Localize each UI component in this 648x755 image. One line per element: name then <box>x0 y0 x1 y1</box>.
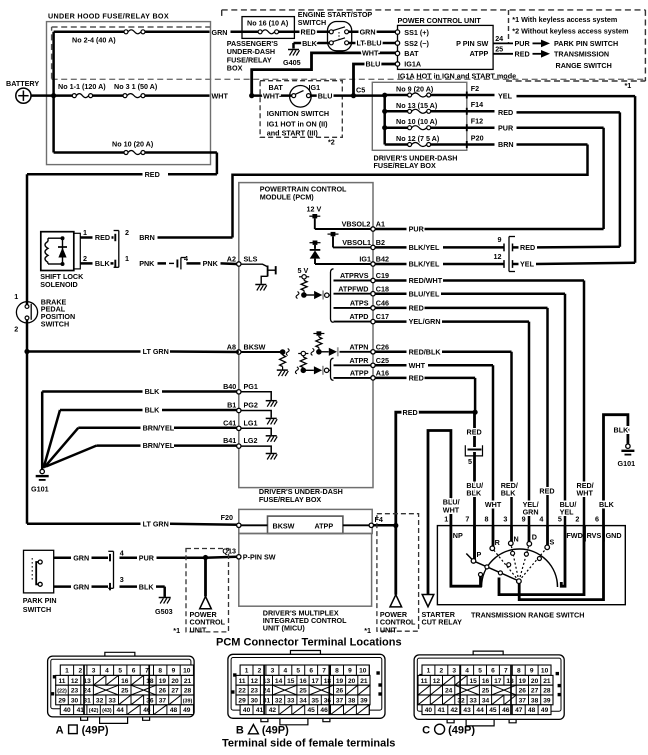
svg-text:21: 21 <box>543 678 551 685</box>
svg-text:P20: P20 <box>471 133 484 142</box>
svg-text:LG2: LG2 <box>244 436 258 445</box>
svg-text:20: 20 <box>531 678 539 685</box>
connector label <box>56 725 109 737</box>
svg-text:FWD: FWD <box>566 531 582 540</box>
wire: GRN into fuse 16 <box>231 31 259 34</box>
svg-text:SS2 (−): SS2 (−) <box>404 39 429 48</box>
svg-text:No 10 (20 A): No 10 (20 A) <box>112 140 154 149</box>
svg-text:PUR: PUR <box>409 225 425 234</box>
svg-text:2: 2 <box>78 668 82 675</box>
wire: RED feed to brake pedal switch <box>27 174 217 306</box>
svg-text:PUR: PUR <box>139 553 155 562</box>
svg-text:19: 19 <box>519 678 527 685</box>
svg-text:SLS: SLS <box>244 254 258 263</box>
svg-text:BLK: BLK <box>145 387 161 396</box>
svg-text:19: 19 <box>336 678 344 685</box>
svg-text:GND: GND <box>606 531 622 540</box>
wire: PUR from A1 <box>375 228 406 231</box>
svg-text:1: 1 <box>65 668 69 675</box>
svg-text:22: 22 <box>238 688 246 695</box>
svg-text:WHT: WHT <box>443 505 460 514</box>
svg-text:WHT: WHT <box>577 489 594 498</box>
svg-text:*1: *1 <box>173 626 180 635</box>
svg-text:ATPS: ATPS <box>350 299 369 308</box>
transmission range switch box <box>437 526 625 605</box>
node: RED junction <box>473 410 478 415</box>
svg-text:No 2-4 (40 A): No 2-4 (40 A) <box>72 36 116 45</box>
svg-text:IG1 HOT in ON (II): IG1 HOT in ON (II) <box>267 120 328 129</box>
pin C19 ATPRVS <box>334 271 389 283</box>
wire: BRN/YEL from B41 to G101 <box>46 446 237 467</box>
svg-text:F2: F2 <box>471 84 479 93</box>
svg-text:39: 39 <box>360 697 368 704</box>
ground G101 (right) <box>618 444 636 468</box>
svg-text:G101: G101 <box>618 459 636 468</box>
svg-text:BOX: BOX <box>227 64 243 73</box>
svg-text:BKSW: BKSW <box>244 342 266 351</box>
svg-text:SWITCH: SWITCH <box>41 320 69 329</box>
svg-text:G101: G101 <box>31 485 49 494</box>
svg-text:F14: F14 <box>471 100 483 109</box>
svg-text:18: 18 <box>324 678 332 685</box>
svg-text:TRANSMISSION RANGE SWITCH: TRANSMISSION RANGE SWITCH <box>471 610 584 619</box>
node: P-PIN SW junction <box>203 555 208 560</box>
wire: BLU/YEL from C18 <box>375 294 565 526</box>
wire: YEL/GRN from C17 <box>375 322 529 526</box>
svg-text:R: R <box>495 538 501 547</box>
wire: YEL from pin 12 up to F2 YEL <box>513 263 636 264</box>
svg-text:VBSOL2: VBSOL2 <box>342 220 371 229</box>
svg-text:GRN: GRN <box>212 28 228 37</box>
svg-text:RED: RED <box>515 49 530 58</box>
svg-text:Terminal side of female termin: Terminal side of female terminals <box>222 738 395 750</box>
svg-text:26: 26 <box>336 688 344 695</box>
pin A8 BKSW <box>227 342 266 354</box>
wire: LT GRN to F20 <box>27 524 239 525</box>
svg-text:44: 44 <box>476 707 484 714</box>
wire: fuse row No 10 to RED <box>54 153 217 175</box>
svg-text:UNDER HOOD FUSE/RELAY BOX: UNDER HOOD FUSE/RELAY BOX <box>48 12 169 21</box>
svg-text:5: 5 <box>296 668 300 675</box>
svg-text:ATPP: ATPP <box>470 49 489 58</box>
svg-text:25: 25 <box>482 688 490 695</box>
svg-text:and START (III): and START (III) <box>267 129 319 138</box>
svg-text:6: 6 <box>132 668 136 675</box>
svg-text:BAT: BAT <box>269 83 284 92</box>
wire: BLU from C5 into fuse bus <box>354 94 385 97</box>
svg-text:RED/WHT: RED/WHT <box>409 276 443 285</box>
svg-text:No 9 (20 A): No 9 (20 A) <box>396 85 434 94</box>
svg-text:VBSOL1: VBSOL1 <box>342 238 371 247</box>
svg-text:BLK: BLK <box>599 500 615 509</box>
battery <box>6 79 46 103</box>
pin SS1 <box>395 28 429 37</box>
wire: BRN/YEL from C41 to G101 <box>45 428 237 467</box>
pin F4 <box>343 515 396 528</box>
wire: BLK/YEL from B42 to connector pin 12 <box>375 263 503 266</box>
wire: GRN switch to SS1 <box>349 31 396 34</box>
svg-text:16: 16 <box>482 678 490 685</box>
wire: BLU/WHT range switch pin 1 to starter cut relay <box>428 431 451 595</box>
pin B42 IG1 <box>359 255 389 267</box>
svg-text:PG1: PG1 <box>244 382 258 391</box>
pin C41 LG1 <box>223 418 277 442</box>
pin C26 ATPN <box>349 342 389 354</box>
wire: GRN park pin bottom <box>54 582 108 591</box>
svg-text:4: 4 <box>105 668 109 675</box>
svg-text:47: 47 <box>515 707 523 714</box>
svg-text:D: D <box>532 533 537 542</box>
svg-text:ATPD: ATPD <box>349 312 368 321</box>
svg-text:12: 12 <box>433 678 441 685</box>
pin B41 LG2 <box>223 436 277 459</box>
under-hood fuse/relay box <box>47 22 211 165</box>
svg-text:17: 17 <box>312 678 320 685</box>
pin numbers above range switch <box>444 515 599 524</box>
svg-text:5: 5 <box>558 515 562 524</box>
svg-text:(49P): (49P) <box>262 725 289 737</box>
svg-text:ATPFWD: ATPFWD <box>338 284 368 293</box>
svg-text:14: 14 <box>275 678 283 685</box>
svg-text:WHT: WHT <box>362 49 379 58</box>
intermediate rotary contacts <box>485 551 542 575</box>
svg-text:12: 12 <box>494 252 502 261</box>
svg-text:9: 9 <box>530 668 534 675</box>
BKSW/ATPP relay block <box>268 516 343 533</box>
connector shell <box>48 652 195 723</box>
wire: BLK to G503 <box>120 582 165 597</box>
svg-text:BLK: BLK <box>614 425 630 434</box>
svg-text:11: 11 <box>59 678 66 685</box>
ignition switch dashed box <box>260 81 342 138</box>
svg-text:Q13: Q13 <box>222 546 236 555</box>
connector keying dividers <box>264 665 329 715</box>
svg-text:5: 5 <box>118 668 122 675</box>
dashed keyless-option boundary (left part) <box>52 27 210 79</box>
svg-text:43: 43 <box>463 707 471 714</box>
wire: pin 6 GND path <box>519 526 603 600</box>
node: WHT ignition junction <box>249 93 254 98</box>
svg-text:FUSE/RELAY BOX: FUSE/RELAY BOX <box>259 495 322 504</box>
power control unit box <box>398 16 494 69</box>
svg-text:37: 37 <box>159 697 167 704</box>
svg-text:RED: RED <box>403 408 418 417</box>
svg-text:28: 28 <box>184 688 192 695</box>
connector label <box>422 724 475 736</box>
svg-text:1: 1 <box>83 228 87 237</box>
svg-text:C26: C26 <box>376 342 389 351</box>
svg-text:7: 7 <box>322 668 326 675</box>
wire: pin 3 to N contact <box>510 526 513 544</box>
svg-text:BLK: BLK <box>466 489 482 498</box>
svg-text:8: 8 <box>158 668 162 675</box>
svg-text:6: 6 <box>491 668 495 675</box>
svg-text:12 V: 12 V <box>307 205 322 214</box>
svg-text:9: 9 <box>498 235 502 244</box>
svg-text:LG1: LG1 <box>244 418 258 427</box>
label: passenger's under-dash fuse/relay box <box>227 39 278 73</box>
svg-text:PARK PIN SWITCH: PARK PIN SWITCH <box>554 39 618 48</box>
dashed divider before notes <box>508 10 510 43</box>
svg-text:C18: C18 <box>376 284 389 293</box>
engine start/stop switch body <box>328 22 352 51</box>
pin B40 PG1 <box>223 382 277 407</box>
svg-text:24: 24 <box>445 688 453 695</box>
svg-text:GRN: GRN <box>73 582 89 591</box>
svg-text:YEL/GRN: YEL/GRN <box>409 317 441 326</box>
svg-text:SWITCH: SWITCH <box>23 605 51 614</box>
svg-text:*1: *1 <box>625 81 632 90</box>
fuse No 16 box <box>242 17 294 39</box>
svg-text:ATPRVS: ATPRVS <box>340 271 369 280</box>
svg-text:49: 49 <box>541 707 549 714</box>
pin B1 PG2 <box>227 401 277 425</box>
svg-text:16: 16 <box>299 678 307 685</box>
svg-text:BLK: BLK <box>145 406 161 415</box>
svg-text:37: 37 <box>336 697 344 704</box>
pin B2 VBSOL1 <box>342 238 385 250</box>
wire: park pin to power control unit <box>204 558 207 597</box>
connector (solenoid 2P) <box>114 228 129 267</box>
svg-text:40: 40 <box>63 707 71 714</box>
svg-text:LT GRN: LT GRN <box>143 520 169 529</box>
svg-text:34: 34 <box>299 697 307 704</box>
svg-text:A2: A2 <box>227 254 236 263</box>
svg-text:9: 9 <box>348 668 352 675</box>
pin 25 ATPP <box>470 44 612 69</box>
svg-text:41: 41 <box>77 707 85 714</box>
svg-text:30: 30 <box>251 697 259 704</box>
range switch arc <box>482 549 558 587</box>
svg-text:10: 10 <box>183 668 191 675</box>
12 V feed for VBSOL1 <box>328 232 374 248</box>
svg-text:(49P): (49P) <box>448 725 475 737</box>
node: battery junction <box>51 93 56 98</box>
svg-text:PARK PIN: PARK PIN <box>23 596 57 605</box>
wire: RED branch to power control unit F4 <box>396 412 475 525</box>
svg-text:BAT: BAT <box>404 49 419 58</box>
svg-text:C5: C5 <box>356 85 365 94</box>
svg-text:NP: NP <box>453 531 463 540</box>
connector pin grid <box>240 665 369 675</box>
svg-text:RED: RED <box>95 233 110 242</box>
wire: RED from pin 9 up to F14 RED <box>513 246 620 249</box>
svg-text:(49P): (49P) <box>82 725 109 737</box>
svg-text:11: 11 <box>239 678 246 685</box>
svg-text:34: 34 <box>482 697 490 704</box>
svg-text:8: 8 <box>335 668 339 675</box>
svg-text:No 12 (7 5 A): No 12 (7 5 A) <box>396 134 440 143</box>
svg-text:RED: RED <box>409 374 424 383</box>
svg-text:36: 36 <box>324 697 332 704</box>
svg-text:(22): (22) <box>57 689 67 695</box>
wire: pin 7 to P contact <box>473 526 476 561</box>
svg-text:42: 42 <box>451 707 459 714</box>
power control unit dashed box (left) <box>186 549 229 635</box>
svg-text:G503: G503 <box>155 607 173 616</box>
svg-text:A: A <box>56 725 64 737</box>
powertrain control module box <box>239 183 373 488</box>
svg-text:20: 20 <box>171 678 179 685</box>
pin IG1A <box>395 60 421 69</box>
wire: LT GRN to BKSW <box>27 318 239 524</box>
svg-text:RANGE SWITCH: RANGE SWITCH <box>556 61 612 70</box>
svg-text:23: 23 <box>251 688 259 695</box>
wire: RED from C46 <box>375 308 547 526</box>
pin C25 ATPR <box>334 356 389 368</box>
svg-text:42: 42 <box>269 707 277 714</box>
svg-text:BLU: BLU <box>366 60 381 69</box>
svg-text:RED: RED <box>145 170 160 179</box>
connector C pins 9/12 <box>494 235 516 272</box>
svg-text:29: 29 <box>238 697 246 704</box>
svg-text:*2: *2 <box>328 138 335 147</box>
svg-text:WHT: WHT <box>409 361 426 370</box>
svg-text:37: 37 <box>519 697 527 704</box>
svg-text:A16: A16 <box>376 369 389 378</box>
svg-text:39: 39 <box>543 697 551 704</box>
wire: fuse row No 2-4 to GRN <box>54 31 210 34</box>
starter cut relay symbol <box>422 595 434 607</box>
svg-text:3: 3 <box>503 515 507 524</box>
svg-text:B40: B40 <box>223 382 236 391</box>
wire: BLU to IG1A pin <box>354 64 396 96</box>
wire: PNK to PCM A2 <box>187 259 237 268</box>
wire labels above range switch <box>443 481 615 517</box>
ground G101 (left) <box>31 469 49 493</box>
svg-text:C17: C17 <box>376 312 389 321</box>
wire: PUR from F12 to PCM A1 <box>517 128 604 229</box>
svg-text:YEL: YEL <box>520 260 535 269</box>
svg-text:8: 8 <box>485 515 489 524</box>
wire: pin 9 to D contact <box>528 526 531 544</box>
connector pin grid <box>422 665 551 675</box>
pin 24 P PIN SW <box>456 34 618 48</box>
svg-text:8: 8 <box>517 668 521 675</box>
svg-text:33: 33 <box>470 697 478 704</box>
svg-text:ATPP: ATPP <box>315 521 334 530</box>
dashed keyless-option box (top right) <box>222 10 646 81</box>
svg-text:B1: B1 <box>227 401 236 410</box>
wire: into power control unit <box>394 526 397 595</box>
power control unit symbol (right) <box>390 595 402 607</box>
svg-text:10: 10 <box>541 668 549 675</box>
svg-text:N: N <box>514 534 519 543</box>
svg-text:No 10 (10 A): No 10 (10 A) <box>396 117 438 126</box>
svg-text:YEL: YEL <box>498 92 513 101</box>
svg-text:BRN: BRN <box>498 140 514 149</box>
svg-text:No 1-1 (120 A): No 1-1 (120 A) <box>58 82 106 91</box>
wire: BLU out of ignition switch <box>311 94 354 97</box>
wire: pin 8 to R contact <box>492 526 495 549</box>
svg-text:F12: F12 <box>471 117 483 126</box>
svg-text:40: 40 <box>243 707 251 714</box>
svg-text:41: 41 <box>438 707 446 714</box>
node: LT GRN junction <box>24 349 29 354</box>
svg-text:B2: B2 <box>376 238 385 247</box>
svg-text:5: 5 <box>468 457 472 466</box>
svg-text:16: 16 <box>121 678 129 685</box>
svg-text:48: 48 <box>528 707 536 714</box>
svg-text:10: 10 <box>359 668 367 675</box>
svg-text:UNIT: UNIT <box>380 625 397 634</box>
svg-text:A1: A1 <box>376 220 385 229</box>
wire: PNK to in-line connector 4 <box>139 259 174 268</box>
connector label <box>236 725 289 737</box>
svg-text:RED: RED <box>520 243 535 252</box>
svg-text:MODULE (PCM): MODULE (PCM) <box>260 193 315 202</box>
svg-text:ATPR: ATPR <box>349 356 369 365</box>
wire: solenoid pin 1 RED <box>80 228 113 242</box>
svg-text:46: 46 <box>320 707 328 714</box>
svg-text:BRN: BRN <box>139 233 155 242</box>
svg-text:19: 19 <box>159 678 167 685</box>
node: F4 junction <box>393 523 398 528</box>
pin SS2 <box>395 39 429 48</box>
power control unit symbol (left) <box>200 596 212 608</box>
rotary selector dashed spokes <box>492 543 547 581</box>
svg-text:1: 1 <box>125 254 129 263</box>
wire: PUR to MICU Q13 <box>120 553 237 562</box>
pin BAT <box>395 49 419 58</box>
MICU box <box>239 534 372 607</box>
svg-text:2: 2 <box>83 254 87 263</box>
svg-text:F4: F4 <box>375 515 383 524</box>
svg-text:4: 4 <box>184 254 188 263</box>
wire: BLK from switch to G405 <box>294 43 330 49</box>
svg-text:P PIN SW: P PIN SW <box>456 39 488 48</box>
svg-text:C19: C19 <box>376 271 389 280</box>
wire: fuse16 to RED label to switch <box>279 31 329 34</box>
svg-text:5 V: 5 V <box>298 266 309 275</box>
wire: BLK pin 6 to G101 <box>604 415 628 526</box>
svg-text:ATPN: ATPN <box>349 342 368 351</box>
svg-text:ATPP: ATPP <box>350 369 369 378</box>
fuse No 1-1 (120 A) <box>58 82 106 98</box>
svg-text:No 16 (10 A): No 16 (10 A) <box>247 19 289 28</box>
svg-text:2: 2 <box>439 668 443 675</box>
svg-text:BLU: BLU <box>318 91 333 100</box>
power control unit dashed box (right) <box>377 514 419 635</box>
svg-text:BLK: BLK <box>95 259 111 268</box>
svg-text:No 13 (15 A): No 13 (15 A) <box>396 101 438 110</box>
svg-text:23: 23 <box>71 688 79 695</box>
svg-text:46: 46 <box>502 707 510 714</box>
rotary selector solid arm through P <box>466 554 519 582</box>
svg-text:3: 3 <box>120 575 124 584</box>
pin A16 ATPP <box>334 369 389 381</box>
svg-text:WHT: WHT <box>485 500 502 509</box>
svg-text:20: 20 <box>348 678 356 685</box>
svg-text:PG2: PG2 <box>244 401 258 410</box>
svg-text:25: 25 <box>121 688 129 695</box>
dashed option boundary bottom (full width) <box>52 78 646 80</box>
svg-text:No 3 1 (50 A): No 3 1 (50 A) <box>114 82 158 91</box>
fuse No 10 (20 A) <box>112 140 154 155</box>
svg-text:POWER CONTROL UNIT: POWER CONTROL UNIT <box>398 16 482 25</box>
wire: WHT battery feed to BAT pin <box>252 53 396 96</box>
svg-text:RED/BLK: RED/BLK <box>409 347 442 356</box>
wire: RED from A16 down to junction <box>375 378 475 412</box>
svg-text:BLK: BLK <box>501 489 517 498</box>
svg-text:GRN: GRN <box>73 553 89 562</box>
svg-text:UNIT (MICU): UNIT (MICU) <box>263 623 306 632</box>
svg-text:(39): (39) <box>183 698 193 704</box>
svg-text:24: 24 <box>495 34 503 43</box>
svg-text:IGNITION SWITCH: IGNITION SWITCH <box>267 109 329 118</box>
svg-text:C41: C41 <box>223 418 236 427</box>
svg-text:BLK: BLK <box>302 39 318 48</box>
